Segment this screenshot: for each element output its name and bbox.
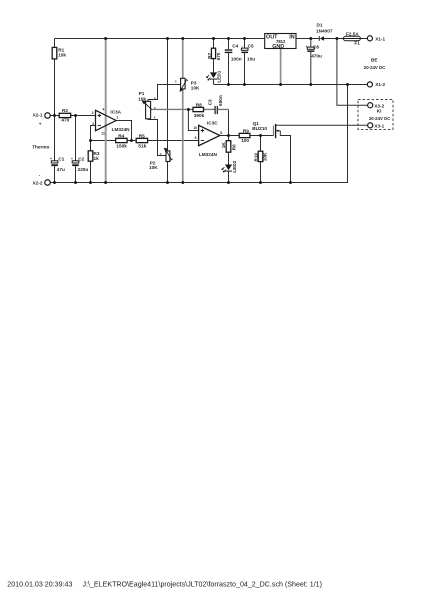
svg-text:P1: P1: [139, 91, 145, 96]
svg-text:C5: C5: [248, 43, 254, 48]
svg-text:9: 9: [195, 136, 197, 140]
svg-text:R4: R4: [118, 134, 124, 139]
svg-text:100n: 100n: [231, 57, 242, 62]
svg-text:10K: 10K: [262, 152, 267, 161]
svg-text:220u: 220u: [78, 167, 89, 172]
svg-text:R6: R6: [231, 144, 236, 150]
svg-text:R8: R8: [196, 103, 202, 108]
svg-text:GND: GND: [272, 44, 284, 50]
svg-text:BUZ10: BUZ10: [252, 126, 267, 131]
svg-text:X2-1: X2-1: [33, 112, 43, 117]
svg-text:1k: 1k: [94, 156, 100, 161]
svg-text:570: 570: [216, 52, 221, 60]
svg-text:470u: 470u: [311, 54, 322, 59]
svg-text:C4: C4: [232, 43, 238, 48]
svg-text:3: 3: [92, 111, 94, 115]
svg-text:4: 4: [103, 107, 105, 111]
svg-text:R10: R10: [254, 153, 259, 162]
svg-text:LED1: LED1: [217, 70, 222, 82]
svg-text:+: +: [71, 157, 73, 161]
svg-text:R7: R7: [207, 52, 212, 58]
svg-text:A: A: [154, 96, 156, 100]
svg-text:IC3A: IC3A: [110, 110, 121, 115]
svg-text:8: 8: [220, 131, 222, 135]
svg-text:LED2: LED2: [232, 160, 237, 172]
svg-text:X1-1: X1-1: [375, 36, 385, 41]
svg-text:11: 11: [101, 131, 105, 135]
svg-text:470: 470: [61, 118, 69, 123]
svg-text:E: E: [154, 116, 156, 120]
svg-text:C6: C6: [313, 44, 319, 49]
svg-text:47u: 47u: [57, 167, 65, 172]
svg-text:LM324N: LM324N: [112, 127, 131, 132]
svg-text:R9: R9: [243, 129, 249, 134]
svg-text:100: 100: [241, 138, 249, 143]
svg-text:C3: C3: [208, 99, 213, 105]
svg-text:S: S: [160, 152, 162, 156]
svg-text:10K: 10K: [191, 86, 200, 91]
svg-text:10k: 10k: [138, 97, 146, 102]
svg-text:390k: 390k: [194, 113, 205, 118]
svg-text:10: 10: [193, 126, 197, 130]
svg-text:20-24V DC: 20-24V DC: [364, 65, 386, 70]
svg-text:R2: R2: [62, 108, 68, 113]
svg-text:LM324N: LM324N: [199, 152, 218, 157]
svg-text:IC3C: IC3C: [207, 120, 218, 125]
svg-text:51k: 51k: [138, 144, 146, 149]
svg-text:X1-2: X1-2: [375, 82, 385, 87]
svg-text:680n: 680n: [218, 95, 223, 106]
svg-text:2010.01.03 20:39:43: 2010.01.03 20:39:43: [7, 580, 72, 588]
svg-text:Thermo: Thermo: [32, 144, 49, 149]
svg-text:BE: BE: [371, 57, 378, 62]
svg-text:150k: 150k: [116, 144, 127, 149]
svg-text:1: 1: [116, 115, 118, 119]
svg-text:S: S: [154, 106, 156, 110]
svg-text:+: +: [50, 157, 52, 161]
svg-text:F1: F1: [354, 40, 360, 45]
svg-text:X2-2: X2-2: [33, 180, 43, 185]
svg-text:IN: IN: [289, 34, 294, 40]
svg-text:KI: KI: [377, 109, 382, 114]
svg-text:10k: 10k: [58, 53, 66, 58]
svg-text:J:\_ELEKTRO\Eagle411\projects\: J:\_ELEKTRO\Eagle411\projects\JLT02\forr…: [83, 580, 322, 588]
svg-text:+: +: [306, 45, 308, 49]
svg-text:10u: 10u: [247, 57, 255, 62]
svg-text:1N4007: 1N4007: [316, 28, 333, 33]
svg-text:F2.5A: F2.5A: [346, 31, 359, 36]
svg-text:1K: 1K: [221, 142, 226, 149]
svg-text:X3-1: X3-1: [374, 123, 384, 128]
svg-text:S: S: [175, 79, 177, 83]
svg-text:2: 2: [92, 122, 94, 126]
svg-text:R5: R5: [139, 134, 145, 139]
svg-text:+: +: [39, 121, 42, 126]
svg-text:D1: D1: [317, 23, 323, 28]
svg-text:C1: C1: [58, 157, 64, 162]
svg-text:10K: 10K: [149, 165, 158, 170]
svg-text:C2: C2: [78, 157, 84, 162]
svg-text:20-24V DC: 20-24V DC: [369, 116, 391, 121]
